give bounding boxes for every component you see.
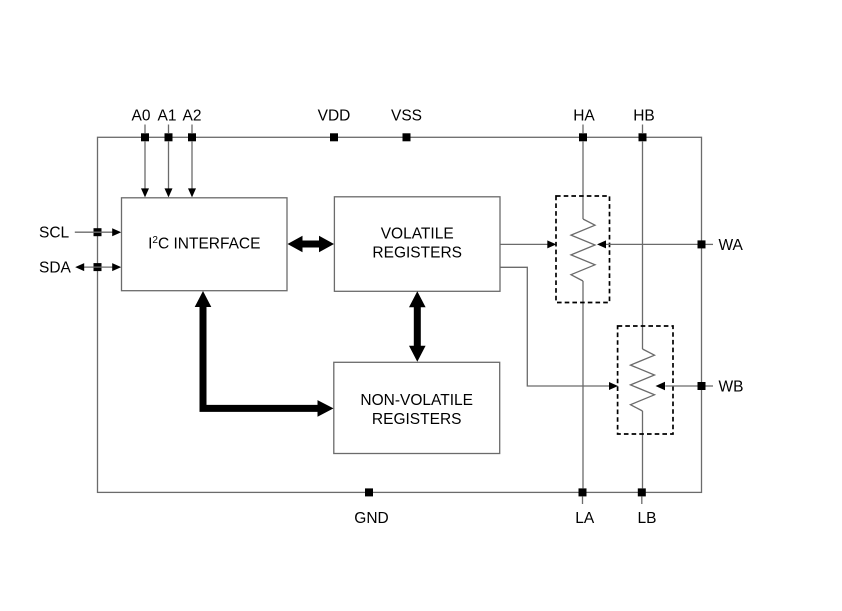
svg-text:VDD: VDD (318, 108, 351, 125)
thick L arrow I2C to NON-VOLATILE (195, 291, 334, 417)
wire WB wiper arrow (656, 382, 698, 390)
pin VDD (318, 108, 351, 142)
svg-text:WB: WB (719, 379, 744, 396)
svg-text:REGISTERS: REGISTERS (372, 244, 462, 261)
svg-text:HA: HA (573, 108, 595, 125)
pin A1 (158, 108, 177, 142)
svg-text:HB: HB (633, 108, 655, 125)
svg-text:VOLATILE: VOLATILE (381, 226, 454, 243)
svg-text:NON-VOLATILE: NON-VOLATILE (360, 392, 473, 409)
svg-text:LA: LA (575, 510, 595, 527)
wire A0 to I2C with arrow (141, 141, 149, 197)
pin HA (573, 108, 595, 142)
pin LB (638, 488, 657, 527)
pin SDA (39, 260, 102, 277)
pin WA (698, 237, 744, 254)
svg-text:A1: A1 (158, 108, 177, 125)
dashed box RA (556, 196, 610, 303)
block U2 VOLATILE REGISTERS (334, 197, 500, 291)
svg-text:SCL: SCL (39, 225, 70, 242)
wire A1 to I2C with arrow (165, 141, 173, 197)
wire SCL to I2C with arrow (75, 228, 121, 236)
svg-text:GND: GND (354, 510, 388, 527)
svg-text:A2: A2 (183, 108, 202, 125)
resistor RA (571, 219, 595, 281)
wire VOLATILE to RB with arrow (500, 267, 618, 390)
pin LA (575, 488, 595, 527)
svg-text:A0: A0 (132, 108, 151, 125)
svg-text:SDA: SDA (39, 260, 72, 277)
wire RB to LB (642, 411, 644, 488)
pin GND (354, 488, 388, 527)
block U3 NON-VOLATILE REGISTERS (334, 362, 500, 453)
wire HB to resistor RB (642, 141, 644, 349)
pin WB (698, 379, 744, 396)
pin A0 (132, 108, 151, 142)
thick double arrow I2C to VOLATILE (288, 236, 335, 253)
thick double arrow VOLATILE to NON-VOLATILE (409, 291, 426, 362)
resistor RB (631, 349, 655, 411)
wire SDA bidirectional arrows (75, 263, 121, 271)
svg-text:WA: WA (719, 237, 744, 254)
pin SCL (39, 225, 102, 242)
pin VSS (391, 108, 422, 142)
svg-text:LB: LB (638, 510, 657, 527)
block U1 I2C INTERFACE (122, 198, 288, 291)
pin HB (633, 108, 655, 142)
pin A2 (183, 108, 202, 142)
svg-text:I2C INTERFACE: I2C INTERFACE (148, 235, 260, 253)
wire A2 to I2C with arrow (188, 141, 196, 197)
svg-text:VSS: VSS (391, 108, 422, 125)
svg-text:REGISTERS: REGISTERS (372, 411, 462, 428)
wire WA wiper arrow (597, 240, 698, 248)
dashed box RB (618, 326, 673, 434)
chip outline (98, 137, 702, 492)
wire RA to LA (582, 281, 584, 488)
wire HA to resistor RA (582, 141, 584, 219)
wire VOLATILE to RA with arrow (500, 240, 556, 248)
